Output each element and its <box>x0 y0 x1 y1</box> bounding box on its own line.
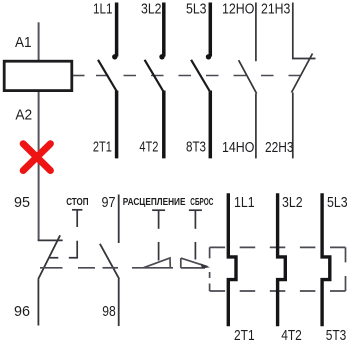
svg-text:5T3: 5T3 <box>326 327 347 342</box>
svg-text:4T2: 4T2 <box>139 139 158 156</box>
svg-text:5L3: 5L3 <box>186 1 207 18</box>
svg-text:3L2: 3L2 <box>282 194 303 211</box>
svg-text:98: 98 <box>102 303 116 320</box>
svg-text:1L1: 1L1 <box>93 1 113 18</box>
svg-text:14НО: 14НО <box>222 139 254 156</box>
svg-text:5L3: 5L3 <box>327 194 348 211</box>
svg-text:1L1: 1L1 <box>234 194 255 211</box>
svg-text:РАСЦЕПЛЕНИЕ: РАСЦЕПЛЕНИЕ <box>123 197 186 208</box>
svg-text:A2: A2 <box>15 106 32 123</box>
svg-text:4T2: 4T2 <box>281 327 302 342</box>
svg-text:8T3: 8T3 <box>186 139 206 156</box>
svg-text:2T1: 2T1 <box>234 327 255 342</box>
svg-text:СТОП: СТОП <box>66 197 88 208</box>
svg-text:97: 97 <box>102 194 116 211</box>
svg-text:A1: A1 <box>15 34 32 51</box>
svg-text:21Н3: 21Н3 <box>261 1 290 18</box>
svg-text:95: 95 <box>14 194 30 211</box>
svg-text:3L2: 3L2 <box>141 1 162 18</box>
svg-text:12НО: 12НО <box>222 1 254 18</box>
svg-text:2T1: 2T1 <box>93 139 112 156</box>
svg-text:22Н3: 22Н3 <box>265 139 294 156</box>
svg-text:96: 96 <box>14 303 30 320</box>
svg-text:СБРОС: СБРОС <box>190 197 213 208</box>
